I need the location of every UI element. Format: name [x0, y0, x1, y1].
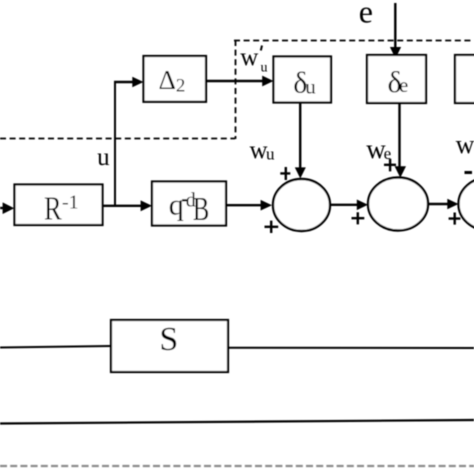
- box q^-d B: [152, 182, 226, 226]
- dashed boundary vertical segment: [235, 40, 237, 139]
- plus sign sum2 left: [352, 212, 365, 224]
- svg-text:B: B: [193, 190, 210, 228]
- wire delta_u down to sum1 arrow: [299, 103, 301, 170]
- box R^-1: [15, 185, 103, 226]
- svg-text:u: u: [97, 144, 110, 171]
- minus sign sum3: [465, 171, 473, 174]
- svg-text:Δ: Δ: [159, 65, 176, 95]
- plus sign sum3 left: [449, 213, 461, 225]
- box S: [111, 320, 228, 372]
- plus sign sum1 top: [280, 167, 290, 180]
- svg-text:e: e: [399, 73, 408, 97]
- svg-text:S: S: [159, 321, 178, 358]
- summing junction sum1: [273, 179, 330, 231]
- svg-text:w: w: [250, 137, 268, 164]
- svg-text:e: e: [359, 0, 373, 29]
- box right clipped: [455, 55, 474, 103]
- wire e input arrow: [394, 3, 396, 49]
- svg-text:w: w: [456, 130, 474, 159]
- dashed gray bottom line: [0, 465, 474, 467]
- summing junction sum3 clipped: [459, 178, 474, 231]
- svg-text:2: 2: [176, 75, 186, 96]
- wire out of S: [228, 347, 474, 349]
- wire Delta2 to delta_u arrow: [206, 80, 264, 82]
- wire sum1 to sum2 arrow: [330, 204, 358, 206]
- plus sign sum2 top: [384, 159, 396, 172]
- wire delta_e down to sum2 arrow: [398, 103, 400, 168]
- svg-text:q: q: [169, 189, 184, 222]
- summing junction sum2: [368, 178, 428, 231]
- wire R-1 to q-dB arrow: [103, 205, 143, 207]
- plus sign sum1 left: [265, 221, 279, 233]
- wire input arrow into R-1: [0, 207, 4, 209]
- svg-text:u: u: [266, 145, 275, 164]
- box delta_u: [274, 57, 332, 103]
- svg-text:-1: -1: [62, 192, 79, 214]
- wire sum2 to sum3 arrow: [428, 203, 448, 205]
- wire long bottom line: [0, 420, 474, 424]
- wire into S: [0, 346, 111, 348]
- box delta_e: [367, 55, 426, 103]
- box Delta2: [144, 56, 207, 102]
- dashed boundary top segment: [234, 40, 474, 42]
- svg-text:u: u: [305, 75, 316, 99]
- svg-text:u: u: [261, 61, 268, 76]
- dashed boundary lower-left segment: [0, 138, 235, 140]
- svg-text:w: w: [240, 44, 258, 71]
- wire q-dB to sum1 arrow: [226, 204, 262, 206]
- wire u feedback vertical and into Delta2: [114, 81, 116, 207]
- svg-text:R: R: [44, 189, 62, 227]
